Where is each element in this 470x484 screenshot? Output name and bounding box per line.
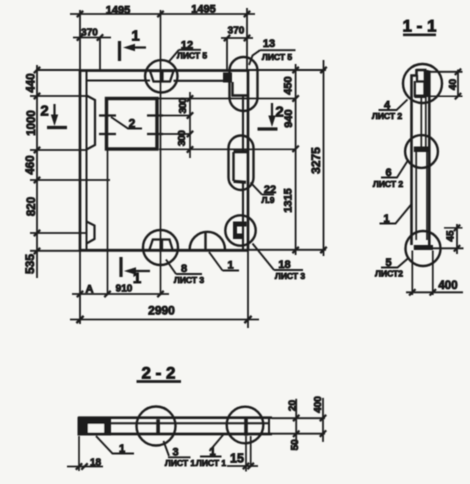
section arrow 1 top (118, 41, 121, 61)
right keyway notch (232, 152, 234, 181)
svg-text:1: 1 (119, 443, 125, 455)
callout 13 leader (249, 50, 296, 65)
top edge anchor trapezoid (detail 12) (150, 71, 174, 82)
section arrow 2 left (53, 104, 55, 119)
svg-text:ЛИСТ 2: ЛИСТ 2 (373, 179, 404, 189)
callout 22 leader (251, 183, 275, 195)
callout 1 dome leader (209, 252, 239, 271)
right top dim extension (246, 8, 248, 70)
dim 400 (1-1) (406, 291, 463, 293)
left extension lines (30, 96, 110, 233)
panel left inner edge (86, 70, 88, 250)
bottom edge semicircular dome (190, 232, 225, 250)
bottom line extension (433, 247, 464, 249)
callout 8 leader (166, 260, 202, 275)
bottom edge anchor trapezoid (detail 8) (150, 240, 173, 250)
svg-text:910: 910 (116, 284, 133, 295)
plate top extension line (157, 98, 296, 100)
left dim line (36, 65, 38, 278)
top-right corner weld plate (filled) (223, 73, 232, 83)
wall top edge (417, 69, 427, 72)
svg-text:940: 940 (283, 109, 295, 127)
detail circle 3 (2-2 left) (137, 407, 176, 446)
bar left end notch (white) (88, 424, 104, 433)
panel right outer edge (247, 70, 250, 250)
horizontal joint plate (filled) (414, 147, 429, 153)
svg-text:5: 5 (385, 257, 391, 269)
section arrow 2 right (271, 103, 273, 119)
svg-text:15: 15 (230, 452, 244, 466)
svg-text:1: 1 (227, 260, 233, 272)
svg-text:18: 18 (90, 458, 102, 469)
top dim line 1495+1495 (70, 13, 255, 15)
svg-text:50: 50 (290, 439, 301, 451)
svg-text:45: 45 (446, 230, 457, 242)
dim line 910 / A (72, 293, 169, 295)
left end extension down (78, 436, 80, 471)
dim 45 (444, 227, 463, 229)
detail circle 12 (145, 60, 177, 92)
svg-text:820: 820 (26, 197, 38, 216)
svg-text:2 - 2: 2 - 2 (141, 364, 175, 383)
wall inner lines upper (421, 96, 426, 147)
svg-text:ЛИСТ 1: ЛИСТ 1 (196, 458, 227, 468)
svg-text:400: 400 (438, 280, 457, 292)
left edge bottom extension (79, 250, 81, 324)
callout 1 left (2-2) leader (96, 436, 134, 454)
panel top edge (36, 69, 80, 71)
top corner joggle rebate (417, 71, 425, 82)
dim 40 (428, 71, 463, 73)
svg-text:450: 450 (283, 76, 295, 94)
svg-text:2: 2 (275, 104, 283, 121)
svg-text:3275: 3275 (309, 147, 323, 174)
callout 1 right (2-2) leader (200, 434, 224, 457)
bar left end block (78, 417, 112, 436)
embedded square plate 2 (107, 99, 158, 150)
svg-text:400: 400 (313, 396, 324, 413)
bar bottom line (78, 433, 272, 436)
top-right corner notch (233, 82, 248, 96)
right inner dim line 450/940/1315 (295, 64, 297, 255)
svg-text:440: 440 (26, 73, 38, 92)
detail oval 13 (230, 57, 258, 111)
detail circle 5 (406, 231, 441, 266)
anchor mark left (2-2) (156, 419, 160, 434)
plate 2 callout leader (111, 117, 142, 129)
dim 370 right (221, 37, 253, 39)
svg-text:1 - 1: 1 - 1 (402, 17, 436, 36)
svg-text:370: 370 (81, 28, 98, 39)
panel bottom edge (30, 250, 80, 252)
detail circle 4 (403, 64, 442, 103)
svg-text:535: 535 (23, 254, 37, 274)
svg-text:40: 40 (448, 79, 459, 91)
dim line 400 (2-2) (322, 398, 324, 442)
svg-text:13: 13 (263, 38, 275, 50)
svg-text:1495: 1495 (191, 4, 215, 16)
svg-text:2: 2 (40, 103, 48, 120)
dim line 300+300 (189, 92, 191, 158)
bar right end (268, 418, 270, 434)
panel left outer edge (79, 70, 82, 250)
plate bottom extension line (159, 148, 296, 150)
svg-text:8: 8 (181, 263, 187, 275)
svg-text:1: 1 (209, 446, 215, 458)
dim line 2990 (70, 319, 259, 321)
detail circle 8 (143, 230, 178, 265)
svg-text:ЛИСТ 5: ЛИСТ 5 (262, 52, 293, 62)
wall left face (412, 69, 417, 245)
callout 1 leader (1-1) (380, 204, 413, 224)
svg-text:370: 370 (228, 26, 245, 37)
detail circle (2-2 right) (227, 407, 264, 444)
bar inner line (111, 422, 269, 424)
detail circle 6 (405, 135, 438, 168)
svg-text:18: 18 (278, 259, 290, 271)
svg-text:1: 1 (133, 270, 141, 287)
wall bottom extensions (412, 251, 433, 296)
right outer dim line 3275 (323, 60, 325, 256)
svg-text:1: 1 (131, 28, 139, 45)
left edge top dim extension (79, 10, 81, 70)
detail oval 22 (229, 136, 254, 191)
panel top inner line (87, 79, 224, 81)
svg-text:А: А (86, 284, 94, 296)
callout 3 leader (164, 441, 191, 457)
svg-text:ЛИСТ 3: ЛИСТ 3 (275, 271, 306, 281)
anchor mark right (2-2) (244, 417, 248, 436)
dim 370 left (73, 37, 111, 39)
svg-text:2: 2 (129, 117, 136, 131)
svg-text:1495: 1495 (106, 5, 130, 17)
callout 6 leader (381, 160, 409, 178)
svg-text:20: 20 (288, 400, 299, 412)
svg-text:2990: 2990 (148, 304, 175, 318)
svg-text:ЛИСТ 1: ЛИСТ 1 (165, 458, 196, 468)
svg-text:460: 460 (25, 155, 37, 174)
callout 18 leader (253, 244, 304, 271)
section arrow 1 bottom (119, 257, 122, 277)
bottom-right corner weld plate (filled) (233, 222, 247, 240)
bar top line (78, 416, 272, 419)
weld ticks on plate 2 (99, 116, 163, 135)
wall inner lines lower (416, 152, 427, 240)
detail circle 18 (225, 215, 255, 245)
left keyway bump 2 (87, 222, 95, 244)
svg-text:ЛИСТ 2: ЛИСТ 2 (372, 111, 403, 121)
right edge bottom extension (247, 250, 249, 328)
svg-text:3: 3 (172, 447, 178, 459)
svg-text:ЛИСТ 5: ЛИСТ 5 (177, 51, 208, 61)
panel centre line (160, 10, 162, 294)
svg-text:6: 6 (385, 167, 391, 179)
bottom end plate (filled) (414, 245, 433, 250)
dim 18 (2-2) (67, 466, 103, 468)
svg-text:1: 1 (383, 213, 389, 225)
dim 15 (2-2) (227, 465, 258, 467)
panel right inner edge (242, 96, 244, 251)
plate left edge extension to dim (107, 150, 109, 294)
svg-text:ЛИСТ 3: ЛИСТ 3 (174, 275, 205, 285)
svg-text:300: 300 (176, 130, 188, 146)
svg-text:ЛИСТ2: ЛИСТ2 (375, 269, 403, 279)
callout 12 leader (169, 50, 201, 62)
svg-text:Л.9: Л.9 (261, 195, 274, 205)
dim line 20/50 (2-2) (295, 399, 297, 447)
svg-text:300: 300 (177, 97, 189, 113)
left keyway bump 1 (87, 96, 96, 150)
callout 5 leader (381, 258, 409, 268)
stud row extension lines (163, 116, 190, 135)
top corner filled strip (425, 70, 429, 97)
anchor extensions down (246, 436, 251, 472)
svg-text:1000: 1000 (26, 110, 38, 136)
svg-text:4: 4 (384, 100, 391, 112)
svg-text:1315: 1315 (283, 188, 295, 212)
wall right face (428, 71, 431, 246)
top corner bottom bar (415, 95, 427, 98)
callout 4 leader (379, 100, 408, 111)
